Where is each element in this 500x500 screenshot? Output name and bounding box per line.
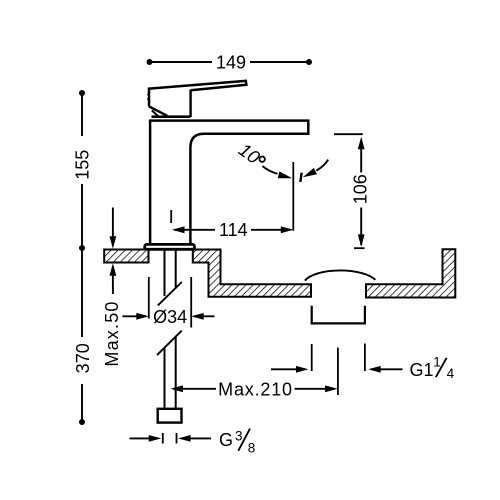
svg-text:Max.50: Max.50 <box>102 300 122 366</box>
dimension G3/8: ticks <box>162 433 164 444</box>
countertop left section (hatched) <box>104 250 148 263</box>
flexible hose <box>165 337 176 409</box>
bowl bottom right + sink right wall (hatched) <box>366 249 455 297</box>
dimension 149: end dots <box>147 59 153 65</box>
hose end fitting G3/8 <box>158 409 182 423</box>
dimension 106: arrows <box>360 140 362 173</box>
hose break slash <box>157 331 182 355</box>
faucet body and spout outline <box>149 121 308 245</box>
pop-up waste dome <box>305 270 376 280</box>
dimension O34: arrows <box>123 315 147 317</box>
10deg leader arc left <box>263 166 278 174</box>
dimension G3/8: arrows <box>130 437 158 439</box>
dimension Max.210 <box>171 385 184 392</box>
svg-text:149: 149 <box>216 53 246 73</box>
svg-text:114: 114 <box>219 220 248 240</box>
svg-text:8: 8 <box>248 441 256 456</box>
dimension 106: extension lines <box>334 133 363 135</box>
svg-text:G: G <box>219 430 233 450</box>
faucet handle lever <box>147 81 246 117</box>
dimension 114: centre tick <box>170 210 172 223</box>
svg-text:155: 155 <box>73 150 93 180</box>
shank break slash <box>158 282 182 305</box>
faucet shank through counter <box>165 249 176 296</box>
svg-text:3: 3 <box>235 429 243 444</box>
svg-text:106: 106 <box>351 174 371 204</box>
dimension O34: extension lines <box>149 277 191 328</box>
10deg leader arc right <box>316 160 328 171</box>
dimension Max.50: arrows <box>112 208 114 246</box>
dimension 114: arrows <box>172 226 185 233</box>
drain tailpiece <box>312 306 365 324</box>
dimension 149 top: line <box>150 61 310 63</box>
outlet extension line <box>292 162 294 231</box>
svg-text:1: 1 <box>433 355 441 370</box>
svg-text:370: 370 <box>73 343 93 373</box>
dimension 155/370 left: line <box>81 93 83 422</box>
outlet 10deg tilted tick <box>300 173 301 182</box>
dimension 155/370: end dots <box>79 90 85 96</box>
svg-text:G1: G1 <box>410 360 434 380</box>
faucet base plate <box>145 244 195 249</box>
svg-text:4: 4 <box>447 366 455 381</box>
svg-text:Ø34: Ø34 <box>153 307 187 327</box>
dimension G1 1/4: arrows <box>271 368 305 370</box>
countertop right + sink left wall + bowl bottom left (hatched) <box>193 250 311 297</box>
drain extension lines <box>312 344 365 396</box>
10deg label <box>235 139 269 172</box>
svg-text:Max.210: Max.210 <box>218 379 293 399</box>
